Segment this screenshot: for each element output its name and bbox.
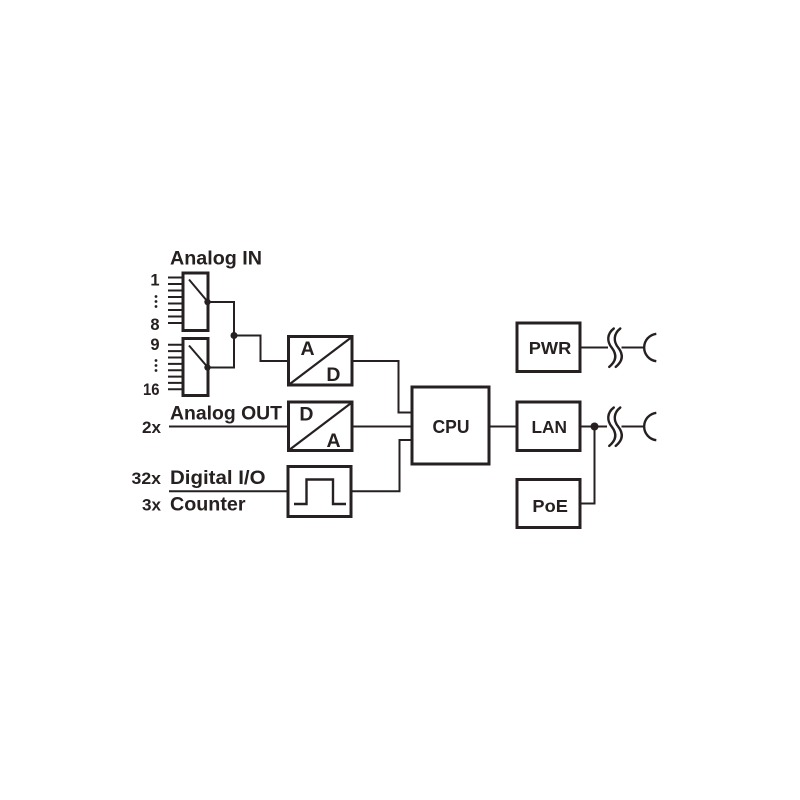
svg-text:A: A [326, 430, 340, 452]
wire mux outputs bus [210, 302, 235, 368]
svg-text:D: D [299, 403, 313, 425]
svg-text:Digital I/O: Digital I/O [170, 467, 266, 489]
ADC diagonal [289, 337, 353, 386]
input ticks multiplexer MUX1 [168, 278, 183, 324]
svg-text:CPU: CPU [433, 417, 470, 437]
ADC U1 box [289, 337, 353, 386]
digital I/O U3 box [288, 467, 351, 517]
input ticks multiplexer MUX2 [168, 345, 183, 390]
wire ADC to CPU [354, 361, 411, 413]
DAC U2 box [289, 402, 353, 451]
svg-text:LAN: LAN [531, 417, 567, 437]
wire PWR after break [622, 347, 645, 349]
wire PWR out [582, 347, 609, 349]
ellipsis dots channels 9..16 [155, 359, 158, 372]
svg-text:Analog OUT: Analog OUT [170, 403, 282, 425]
switch contact dot MUX2 [204, 364, 210, 370]
svg-text:PoE: PoE [532, 496, 568, 516]
wire LAN out [582, 426, 608, 428]
pulse waveform symbol [294, 480, 346, 505]
wire DAC to CPU [354, 426, 411, 428]
DAC diagonal [289, 402, 353, 451]
svg-text:32x: 32x [132, 470, 162, 488]
svg-text:A: A [300, 338, 314, 360]
wire DIO to CPU [353, 440, 411, 491]
cable break squiggle LAN [608, 408, 622, 446]
switch arm MUX2 [189, 346, 208, 368]
junction node mux bus [231, 332, 238, 339]
ellipsis dots channels 1..8 [155, 295, 158, 308]
PoE box [517, 480, 580, 528]
CPU U4 box [412, 387, 489, 464]
svg-text:D: D [326, 364, 340, 386]
wire LAN junction to PoE [582, 427, 595, 504]
svg-text:Counter: Counter [170, 494, 246, 516]
wire digital io to DIO box [169, 490, 287, 492]
svg-text:PWR: PWR [529, 338, 572, 358]
svg-text:9: 9 [150, 336, 159, 354]
connector arc PWR [644, 334, 656, 361]
connector arc LAN [644, 413, 656, 440]
wire junction to ADC [234, 336, 287, 362]
switch contact dot MUX1 [204, 299, 210, 305]
wire CPU to LAN [491, 426, 516, 428]
svg-text:1: 1 [150, 271, 159, 289]
multiplexer MUX2 box [183, 339, 208, 396]
svg-text:Analog IN: Analog IN [170, 248, 262, 270]
svg-text:3x: 3x [142, 497, 162, 515]
PWR box [517, 323, 580, 372]
svg-text:2x: 2x [142, 419, 162, 437]
svg-text:8: 8 [150, 316, 159, 334]
wire LAN after break [622, 426, 645, 428]
svg-text:16: 16 [143, 381, 160, 399]
LAN box [517, 402, 580, 451]
cable break squiggle PWR [608, 329, 622, 367]
wire analog out to DAC [169, 426, 287, 428]
multiplexer MUX1 box [183, 273, 208, 331]
junction node LAN-PoE [591, 423, 599, 431]
switch arm MUX1 [189, 280, 208, 302]
